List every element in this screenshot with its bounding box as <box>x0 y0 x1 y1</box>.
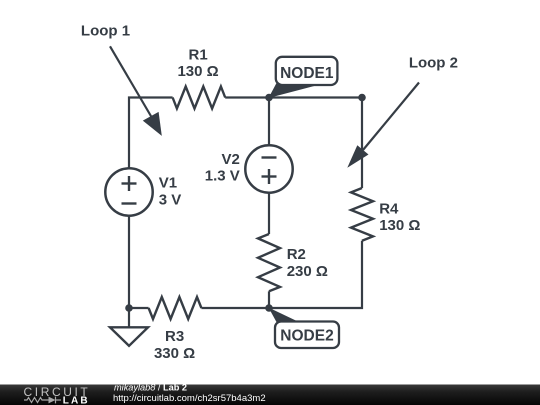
wire mid from R2 to bottom node <box>268 291 270 308</box>
resistor R2 <box>258 234 280 291</box>
wire right from R4 to bottom <box>269 241 362 308</box>
svg-text:V2: V2 <box>221 151 239 168</box>
node junction dot top mid <box>265 94 273 102</box>
svg-text:Loop 1: Loop 1 <box>81 23 130 40</box>
svg-text:1.3 V: 1.3 V <box>205 168 240 185</box>
svg-text:R1: R1 <box>189 46 208 63</box>
svg-text:R2: R2 <box>287 246 306 263</box>
svg-text:130 Ω: 130 Ω <box>177 63 218 80</box>
svg-text:Loop 2: Loop 2 <box>409 54 458 71</box>
svg-text:330 Ω: 330 Ω <box>154 345 195 362</box>
node NODE2 callout <box>269 308 340 349</box>
svg-text:R3: R3 <box>165 328 184 345</box>
svg-text:mikaylab8 / Lab 2: mikaylab8 / Lab 2 <box>114 382 187 392</box>
wire mid from V2 to R2 <box>268 193 270 235</box>
CircuitLab logo resistor-diode glyph <box>24 397 61 404</box>
wire top from V1 to R1 <box>129 98 173 169</box>
node NODE1 callout <box>269 57 338 98</box>
wire top from R1 to right corner <box>225 96 362 98</box>
svg-text:V1: V1 <box>159 175 177 192</box>
svg-text:NODE1: NODE1 <box>280 65 334 82</box>
node Loop 1 arrowhead <box>143 112 162 136</box>
wire Loop 2 arrow line <box>363 83 419 151</box>
wire mid from top to V2 <box>268 98 270 146</box>
wire bottom from R3 to NODE2 <box>201 307 269 309</box>
wire left from V1 to bottom node <box>128 216 130 309</box>
svg-text:3 V: 3 V <box>159 191 182 208</box>
wire right from top to R4 <box>361 98 363 189</box>
resistor R1 <box>173 87 226 109</box>
node junction dot top right <box>358 94 366 102</box>
svg-text:R4: R4 <box>379 200 399 217</box>
svg-text:http://circuitlab.com/ch2sr57b: http://circuitlab.com/ch2sr57b4a3m2 <box>113 393 266 404</box>
svg-text:130 Ω: 130 Ω <box>379 217 420 234</box>
svg-text:LAB: LAB <box>63 396 90 405</box>
node Loop 2 arrowhead <box>347 145 368 168</box>
resistor R3 <box>149 297 202 319</box>
voltage source V2 <box>245 145 292 192</box>
wire bottom from ground node to R3 <box>129 307 149 309</box>
svg-text:230 Ω: 230 Ω <box>287 263 328 280</box>
svg-text:NODE2: NODE2 <box>280 328 333 345</box>
voltage source V1 <box>105 168 152 215</box>
node junction dot bottom mid <box>265 304 273 312</box>
ground <box>110 308 148 346</box>
wire Loop 1 arrow line <box>110 46 152 117</box>
footer bar <box>0 385 540 405</box>
node junction dot bottom left <box>125 304 133 312</box>
resistor R4 <box>351 188 373 241</box>
